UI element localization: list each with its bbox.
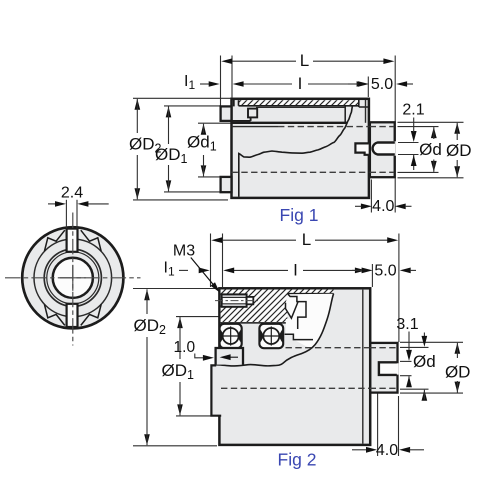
svg-text:L: L: [302, 230, 311, 249]
svg-text:Fig 1: Fig 1: [280, 205, 319, 225]
svg-text:M3: M3: [173, 243, 195, 260]
svg-text:ØD: ØD: [445, 362, 471, 381]
svg-text:4.0: 4.0: [376, 442, 398, 459]
svg-text:ØD: ØD: [446, 141, 472, 160]
svg-text:I: I: [298, 74, 303, 93]
svg-text:2.4: 2.4: [61, 185, 83, 202]
svg-text:2.1: 2.1: [402, 102, 424, 119]
svg-text:5.0: 5.0: [374, 262, 396, 279]
svg-text:1.0: 1.0: [174, 339, 196, 356]
svg-text:Ød: Ød: [419, 140, 442, 159]
svg-text:5.0: 5.0: [371, 76, 393, 93]
svg-text:Fig 2: Fig 2: [278, 450, 317, 470]
svg-text:L: L: [300, 51, 309, 70]
svg-text:Ød: Ød: [413, 352, 436, 371]
svg-text:I: I: [293, 260, 298, 279]
svg-text:4.0: 4.0: [372, 198, 394, 215]
svg-text:3.1: 3.1: [396, 316, 418, 333]
